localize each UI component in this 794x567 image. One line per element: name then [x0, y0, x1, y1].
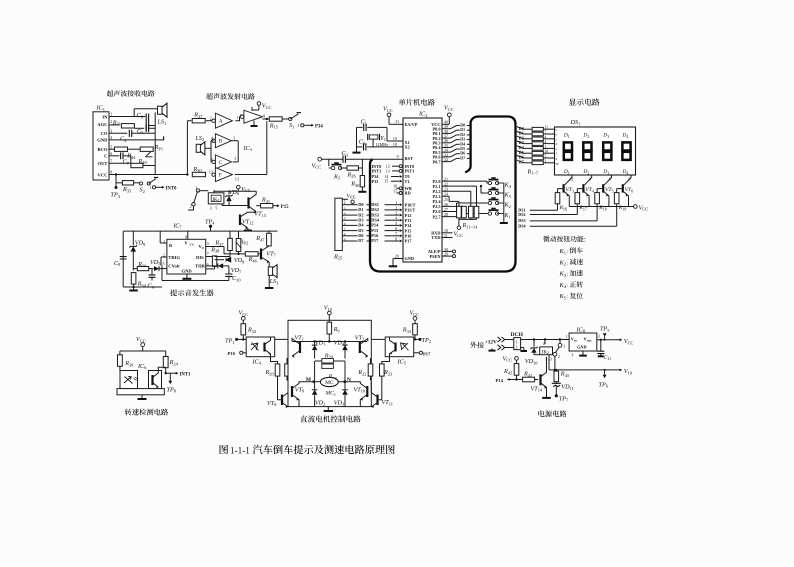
- svg-text:6: 6: [395, 227, 397, 231]
- capacitor C1: [357, 118, 388, 131]
- svg-text:C: C: [219, 160, 223, 166]
- resistor R38: [206, 246, 220, 269]
- resistor R40: [109, 158, 155, 168]
- ground at beep generator left: [123, 286, 162, 291]
- wire common emitter rail to VCC: [569, 204, 648, 211]
- svg-text:D3: D3: [602, 133, 609, 139]
- test point TP4: [205, 218, 215, 231]
- H-bridge outer frame: [288, 320, 371, 406]
- resistor R24: [163, 351, 178, 373]
- svg-text:RD: RD: [405, 191, 411, 196]
- wire digit select DS1-DS4: [518, 204, 616, 229]
- svg-text:GND: GND: [577, 345, 586, 350]
- svg-text:2: 2: [516, 346, 518, 350]
- label 外接 +12V input: [470, 340, 497, 348]
- svg-text:DIS: DIS: [196, 255, 204, 260]
- inverter IC3-C: [211, 155, 237, 169]
- wire relay to V10 rail: [548, 355, 550, 370]
- IC2 right pin labels: [428, 121, 448, 259]
- svg-text:5: 5: [545, 155, 547, 159]
- svg-text:D4: D4: [622, 133, 629, 139]
- node P34 output of S1: [298, 124, 324, 130]
- svg-text:OUT: OUT: [98, 161, 108, 166]
- svg-text:8: 8: [395, 237, 397, 241]
- potentiometer RP2: [236, 231, 248, 254]
- wire P2.1 to R14: [442, 185, 482, 206]
- svg-text:DS2: DS2: [518, 212, 525, 217]
- capacitor C2: [357, 127, 404, 152]
- svg-text:D2: D2: [460, 133, 465, 137]
- node P16 input: [228, 351, 247, 356]
- IC2 left pin labels: [405, 122, 418, 261]
- ground under photo interrupter: [138, 395, 147, 399]
- display segment pin letters: [556, 128, 560, 166]
- wire output node to INT1: [158, 367, 191, 377]
- wire IC4 output to bridge: [275, 338, 288, 340]
- svg-text:A: A: [219, 119, 223, 125]
- pin ALE PSEN stubs: [442, 250, 456, 258]
- title 电源电路: [538, 410, 566, 417]
- transistor VT8: [267, 376, 288, 408]
- svg-text:THR: THR: [195, 264, 206, 269]
- power terminal VCC of IC3: [252, 102, 272, 110]
- svg-text:5: 5: [395, 222, 397, 226]
- svg-text:MC: MC: [325, 380, 334, 386]
- crystal Y1 12MHz: [368, 127, 403, 147]
- svg-text:T1: T1: [405, 179, 410, 184]
- op-amp IC1 package: [93, 105, 109, 181]
- wire beep generator VCC rail: [123, 230, 277, 232]
- title 显示电路: [569, 98, 600, 105]
- transistor VT7: [261, 246, 277, 263]
- key legend text 微动按钮功能: [543, 236, 585, 242]
- svg-text:D6: D6: [460, 152, 465, 156]
- test point TP3: [111, 175, 121, 199]
- zener diode VD8: [215, 257, 246, 265]
- phototransistor inside photo interrupter: [153, 371, 159, 389]
- svg-text:R19: R19: [618, 205, 626, 211]
- resistor network R25: [333, 198, 343, 260]
- switch S2: [139, 177, 158, 193]
- loudspeaker LS1: [157, 103, 168, 126]
- svg-text:P0.7: P0.7: [433, 159, 442, 164]
- wire 555 TRIG CVolt: [159, 257, 167, 266]
- svg-text:5: 5: [163, 262, 165, 266]
- svg-text:5: 5: [234, 157, 236, 161]
- svg-text:P2.7: P2.7: [433, 214, 442, 219]
- svg-text:18: 18: [393, 143, 397, 147]
- svg-text:5: 5: [215, 206, 217, 210]
- wire 555 pin 4 and pin 8 stubs: [160, 231, 188, 243]
- svg-text:R16: R16: [559, 205, 567, 211]
- wire LS1 to rail: [154, 112, 156, 133]
- pushbutton K2: [488, 198, 511, 209]
- resistor R37: [214, 231, 232, 256]
- pin WR stub: [393, 185, 402, 190]
- title 单片机电路: [399, 99, 435, 106]
- svg-text:2: 2: [572, 353, 574, 357]
- svg-text:19: 19: [393, 137, 397, 141]
- display DS1 body: [555, 127, 636, 175]
- title 直流电机控制电路: [300, 415, 360, 422]
- svg-text:IN: IN: [102, 114, 108, 119]
- power terminal VCC right of motor block: [410, 310, 420, 324]
- wire GND row with stub terminal: [109, 136, 164, 140]
- potentiometer RP1: [140, 133, 163, 174]
- display digit labels top D1-D4: [563, 133, 629, 139]
- pushbutton K5: [329, 159, 342, 180]
- svg-text:P34: P34: [315, 125, 323, 130]
- svg-text:CC: CC: [350, 196, 356, 200]
- svg-text:RST: RST: [405, 156, 413, 161]
- resistor R36: [133, 261, 153, 271]
- node INT0 wire to pin 12: [372, 164, 403, 169]
- resistor R21: [285, 358, 299, 381]
- inverter IC3-B: [211, 134, 235, 148]
- pushbutton K4: [488, 178, 511, 189]
- wire IN row: [109, 109, 159, 117]
- resistor network R11-R14: [457, 206, 479, 229]
- svg-text:25: 25: [444, 198, 448, 202]
- test point TP8: [167, 373, 177, 393]
- wire M N columns: [315, 361, 345, 382]
- rheostat R29: [315, 352, 345, 368]
- resistor R35: [116, 181, 140, 194]
- switch S1: [289, 113, 301, 130]
- optocoupler IC4 body: [246, 337, 275, 366]
- ground under fifth gate: [251, 121, 258, 127]
- svg-text:1-1-1: 1-1-1: [230, 445, 250, 455]
- svg-text:CC: CC: [190, 243, 195, 247]
- node N: [343, 377, 351, 383]
- diode VD5: [150, 259, 167, 271]
- loudspeaker LS3: [268, 262, 279, 288]
- svg-text:B: B: [219, 139, 223, 145]
- ground right of DCH: [521, 348, 528, 352]
- motor MC1: [314, 374, 345, 397]
- svg-text:P17: P17: [423, 351, 431, 356]
- svg-text:TXD: TXD: [431, 235, 440, 240]
- svg-text:1: 1: [298, 124, 300, 128]
- svg-text:JK1: JK1: [212, 198, 220, 203]
- node P14 and resistor R42: [496, 371, 539, 383]
- relay JK2: [534, 340, 553, 362]
- ground at keys: [500, 220, 508, 224]
- svg-text:12: 12: [386, 165, 390, 169]
- svg-text:VT3: VT3: [565, 187, 574, 193]
- node P34 wire to T0 pin 14: [372, 174, 403, 179]
- wire 555 GND to ground: [182, 274, 191, 279]
- digit driver transistors VT3 VT4 VT5 VT6 with resistors R16-R19: [555, 175, 633, 211]
- wire P1 bus with net labels D0-D7 DS1-DS4 P14-P17: [342, 201, 402, 243]
- resistor R33: [402, 324, 418, 341]
- key legend K1-K5: [559, 247, 583, 300]
- wire VD6 JK1 to VT13 base: [222, 204, 249, 206]
- ground under VT14: [542, 387, 551, 398]
- transistor VT1: [288, 334, 304, 357]
- microcontroller IC2 label: [418, 111, 427, 118]
- zener diode VD10: [525, 340, 538, 366]
- wire left branch down: [122, 231, 124, 287]
- svg-text:4: 4: [395, 217, 397, 221]
- wire P2.7 to key K1: [442, 214, 490, 217]
- svg-text:13: 13: [235, 178, 239, 182]
- svg-text:31: 31: [395, 120, 399, 124]
- resistor R39: [118, 351, 135, 371]
- zener diode VD11: [552, 383, 574, 395]
- wire IC8 output to VCC: [597, 338, 634, 345]
- photo interrupter IC6 body: [117, 371, 164, 395]
- svg-text:3: 3: [210, 206, 212, 210]
- diode VD1: [312, 339, 326, 358]
- capacitor C3 on RST wire: [322, 150, 403, 163]
- svg-text:D4: D4: [622, 169, 629, 175]
- wire IC4 emitter to R20: [271, 357, 278, 364]
- label IC3: [242, 145, 252, 152]
- wire GND pin 20 of IC2: [389, 255, 403, 267]
- wire gate B C outputs tied: [231, 141, 238, 162]
- optocoupler IC4 internals: [251, 337, 271, 357]
- svg-text:D3: D3: [460, 138, 465, 142]
- svg-text:0: 0: [202, 246, 204, 250]
- capacitor C9: [148, 269, 156, 290]
- svg-text:VCC: VCC: [98, 172, 108, 177]
- timer IC7 label: [172, 222, 182, 229]
- svg-text:D0: D0: [460, 124, 465, 128]
- svg-text:AGC: AGC: [97, 122, 107, 127]
- resistor R47: [255, 231, 271, 246]
- resistor R15: [262, 115, 288, 130]
- svg-text:D4: D4: [460, 142, 465, 146]
- svg-text:3: 3: [598, 335, 600, 339]
- resistor R34: [131, 273, 146, 288]
- svg-text:8: 8: [185, 235, 187, 239]
- ground under H-bridge: [324, 407, 334, 411]
- resistor R46: [224, 252, 261, 264]
- svg-text:1: 1: [566, 335, 568, 339]
- svg-text:3: 3: [233, 137, 235, 141]
- loudspeaker LS2: [194, 135, 211, 155]
- svg-text:9: 9: [263, 115, 265, 119]
- svg-text:VT6: VT6: [625, 187, 634, 193]
- svg-text:R17: R17: [578, 205, 586, 211]
- svg-text:2: 2: [395, 206, 397, 210]
- svg-text:C: C: [104, 154, 107, 159]
- svg-text:1: 1: [150, 186, 152, 190]
- resistor R27: [187, 112, 213, 123]
- power terminal VCC at EA/VP: [383, 106, 403, 125]
- svg-text:1: 1: [395, 201, 397, 205]
- ground under R30: [358, 191, 366, 193]
- test point TP5: [600, 326, 610, 340]
- svg-text:1: 1: [563, 344, 565, 349]
- test point TP6: [599, 370, 609, 389]
- diode VD7: [206, 263, 242, 274]
- svg-text:D1: D1: [563, 169, 570, 175]
- svg-text:3: 3: [207, 242, 209, 246]
- power terminal VCC at JK1: [237, 185, 251, 193]
- svg-text:INT1: INT1: [372, 169, 382, 174]
- svg-text:EA/VP: EA/VP: [405, 122, 418, 127]
- wire K3 feed: [481, 186, 490, 193]
- svg-text:14: 14: [384, 175, 388, 179]
- svg-text:D1: D1: [563, 133, 570, 139]
- transistor VT10: [345, 382, 368, 407]
- wire P2.2 to R13: [442, 191, 471, 206]
- optocoupler IC5 internals: [390, 337, 409, 357]
- svg-text:DS4: DS4: [518, 224, 525, 229]
- wire VCC rail to JK1 VD6 VT13: [214, 191, 256, 193]
- svg-text:BCO: BCO: [98, 147, 108, 152]
- wire main 12V rail: [521, 338, 570, 340]
- ground at input: [489, 349, 496, 351]
- wire transmitter left bus: [186, 121, 188, 175]
- resistor R22: [357, 358, 373, 381]
- rectifier DCH: [505, 332, 524, 350]
- optocoupler IC5 body: [385, 337, 414, 366]
- svg-text:GND: GND: [182, 268, 193, 273]
- svg-text:10: 10: [545, 150, 549, 154]
- diode VD2: [312, 382, 326, 407]
- transistor VT13: [249, 191, 267, 218]
- wire P2.6 to key K2: [442, 203, 490, 212]
- power terminal VCC speed detector: [136, 336, 146, 351]
- svg-text:D7: D7: [358, 238, 364, 243]
- resistor on BCO row: [109, 147, 141, 151]
- svg-text:1: 1: [516, 340, 518, 344]
- svg-text:INT0: INT0: [166, 187, 178, 192]
- relay switch contacts: [553, 340, 565, 370]
- inverter IC3-A: [210, 113, 242, 128]
- svg-text:2: 2: [558, 354, 560, 359]
- svg-text:12MHz: 12MHz: [376, 142, 389, 147]
- svg-text:GND: GND: [97, 138, 108, 143]
- wire bridge to IC5: [371, 338, 385, 340]
- title 超声波接收电路: [107, 90, 155, 96]
- svg-text:C11: C11: [604, 355, 612, 361]
- title 提示音发生器: [170, 289, 213, 296]
- svg-text:VT4: VT4: [585, 187, 594, 193]
- svg-text:P17: P17: [371, 238, 379, 243]
- wire P2.5 to R12: [442, 205, 464, 207]
- svg-text:20: 20: [395, 255, 399, 259]
- label R44: [126, 153, 136, 160]
- resistor R26: [340, 159, 362, 178]
- ground under VT12: [244, 228, 252, 231]
- resistor R43: [554, 370, 570, 383]
- wire P2.3 to R11 staircase: [442, 196, 459, 206]
- svg-text:3: 3: [545, 159, 547, 163]
- svg-text:2: 2: [545, 140, 547, 144]
- svg-text:DS3: DS3: [518, 218, 525, 223]
- supply node V10 and resistor R9: [324, 305, 341, 342]
- svg-text:7: 7: [545, 131, 547, 135]
- svg-text:7: 7: [207, 252, 209, 256]
- wire LS2 to gate inputs: [211, 141, 214, 162]
- svg-text:P16: P16: [228, 351, 236, 356]
- display seven-segment digits 8888: [564, 142, 631, 160]
- capacitor C7 on C row: [109, 152, 131, 166]
- node M: [306, 377, 315, 383]
- resistor R20: [265, 364, 280, 376]
- diode VD4: [334, 339, 348, 358]
- resistor R31: [109, 119, 134, 128]
- pushbutton K1: [488, 209, 511, 220]
- wire keys common to ground: [497, 183, 504, 220]
- svg-text:4: 4: [543, 342, 545, 346]
- zener diode VD6: [225, 189, 240, 206]
- title 转速检测电路: [125, 409, 168, 416]
- capacitor C11: [597, 340, 611, 361]
- transistor VT9: [292, 382, 314, 407]
- wire 555 output pin3: [206, 247, 224, 254]
- svg-text:TRIG: TRIG: [168, 255, 180, 260]
- resistor R32: [241, 324, 256, 340]
- svg-text:D7: D7: [519, 159, 524, 164]
- resistor R45: [503, 364, 519, 380]
- transistor VT2: [355, 334, 368, 357]
- svg-text:in: in: [574, 339, 577, 343]
- wire VCC row of IC1 to transmitter bus: [109, 173, 189, 175]
- wire segment bus D0-D7 through R1~7 to display: [517, 126, 555, 176]
- timer 555 body: [163, 235, 209, 274]
- wire speed detector top rail: [120, 350, 166, 352]
- title 超声波发射电路: [206, 93, 255, 100]
- wire collector rail top: [292, 340, 367, 342]
- resistor R41: [256, 197, 289, 212]
- wire IC5 emitter to R23: [382, 357, 390, 364]
- zener diode VD9: [130, 231, 147, 270]
- ground under LS3: [265, 287, 274, 289]
- svg-text:D2: D2: [582, 169, 589, 175]
- svg-text:X2: X2: [405, 145, 410, 150]
- pushbutton K3: [488, 188, 511, 199]
- svg-text:VT5: VT5: [605, 187, 614, 193]
- power terminal VCC left of motor block: [239, 310, 249, 324]
- power terminal VCC to R45: [503, 355, 519, 363]
- caption 图1-1-1 汽车倒车提示及测速电路原理图: [220, 445, 395, 456]
- diode VD3: [334, 382, 348, 407]
- wire P0 bus diagonals: [442, 124, 470, 162]
- svg-text:INT1: INT1: [405, 169, 415, 174]
- transistor VT12: [240, 212, 256, 229]
- inverter IC3-F: [209, 168, 239, 182]
- svg-text:D2: D2: [582, 133, 589, 139]
- pin RD stub: [393, 189, 402, 194]
- resistor R30 pulldown at RST: [350, 168, 364, 192]
- svg-text:2: 2: [210, 117, 212, 121]
- svg-text:F: F: [219, 173, 222, 179]
- svg-text:P14: P14: [496, 378, 504, 383]
- node P35 wire to T1 pin 15: [372, 179, 403, 184]
- wire feedback bus right: [235, 118, 268, 175]
- svg-text:1: 1: [236, 116, 238, 120]
- svg-text:11: 11: [545, 126, 549, 130]
- wire JK1 contacts: [188, 191, 208, 210]
- svg-text:PSEN: PSEN: [430, 254, 442, 259]
- resistor R30: [192, 166, 205, 177]
- svg-text:GND: GND: [405, 256, 415, 261]
- svg-text:+12V: +12V: [485, 340, 497, 346]
- test point TP2: [414, 337, 431, 344]
- svg-text:4: 4: [545, 135, 547, 139]
- svg-text:7: 7: [395, 232, 397, 236]
- wire V10 rail: [549, 368, 633, 375]
- inverter IC3 fifth gate: [240, 107, 262, 123]
- wire gate A output: [235, 117, 242, 121]
- ground at crystal: [353, 152, 361, 154]
- transistor VT14: [531, 357, 547, 393]
